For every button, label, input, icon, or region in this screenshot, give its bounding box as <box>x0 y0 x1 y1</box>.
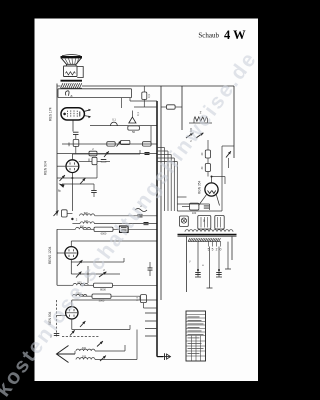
resistor 5005 row296 <box>92 294 111 298</box>
wire h 184 <box>62 183 94 185</box>
wire antenna up <box>74 351 76 354</box>
wire y204 right <box>177 203 209 205</box>
speaker frame box <box>64 66 78 77</box>
switch at 55 213 <box>54 210 59 216</box>
wire V3 bottom <box>70 259 72 262</box>
tube V3 electrodes <box>66 249 77 257</box>
primary box 1 <box>198 216 211 230</box>
transformer top coil row <box>185 230 233 232</box>
wire y206 h <box>182 206 190 208</box>
bus x234 upper <box>233 86 235 158</box>
coil row 296 <box>73 294 87 296</box>
wire 285 <box>81 284 94 286</box>
svg-text:RES 174: RES 174 <box>49 107 53 121</box>
wire left bus upper <box>56 84 58 167</box>
resistor on H3 b <box>121 140 130 144</box>
switch below V4 <box>80 321 85 327</box>
wire H1 top rail <box>82 85 234 87</box>
tube V1 output arrows <box>84 110 90 117</box>
switch on H3 <box>117 141 122 147</box>
wire x157 top corner <box>130 100 157 102</box>
svg-text:RENS 1204: RENS 1204 <box>48 246 52 264</box>
svg-text:0,1: 0,1 <box>136 112 140 116</box>
wire V1 right leg <box>121 98 123 108</box>
resistor 8000 row285 <box>94 283 113 287</box>
resistor H y107 <box>167 105 176 109</box>
wire V2 top <box>71 154 73 160</box>
primary box 2 <box>215 216 224 230</box>
svg-text:0,1: 0,1 <box>112 118 116 122</box>
vert x228 <box>227 242 229 269</box>
component (2) y210 <box>135 209 147 212</box>
wire V1 anode down <box>72 120 74 132</box>
svg-text:RGN 354: RGN 354 <box>198 180 202 194</box>
svg-text:4 W: 4 W <box>224 28 246 42</box>
wire x144 <box>143 86 145 92</box>
rectifier legs <box>199 194 207 205</box>
resistor 50 on H2 <box>128 126 140 130</box>
thick bus x157 <box>156 101 158 357</box>
cap to ground x94 <box>91 190 97 192</box>
wire x97 down <box>96 165 98 178</box>
bus x182 <box>181 86 183 130</box>
wire 222 vert <box>221 146 223 206</box>
svg-text:5005: 5005 <box>99 299 105 303</box>
resistor R under V1 <box>73 139 79 146</box>
mains lamp box <box>180 216 189 226</box>
wire cap to resistor <box>75 135 77 140</box>
junction dot v2 <box>71 177 73 179</box>
output transformer primary winding <box>61 83 82 88</box>
ground arrow bottom <box>157 356 163 358</box>
switch 97 344 <box>97 341 103 346</box>
wire V2 bottom <box>71 173 73 211</box>
resistor on H3 c <box>143 142 152 146</box>
svg-text:305: 305 <box>82 356 87 359</box>
coil row 359 <box>76 358 95 360</box>
coil row 229 <box>76 227 91 229</box>
cap below rectifier <box>204 206 210 208</box>
rectifier RGN354 envelope <box>205 183 218 196</box>
wire h262 <box>71 261 124 263</box>
svg-text:REN 904: REN 904 <box>44 161 48 175</box>
switch 71 333 <box>70 330 75 335</box>
coil row 350 <box>76 349 95 351</box>
wire transformer left tap <box>57 85 61 87</box>
switch below V2 b <box>80 178 85 184</box>
tube V4 electrodes <box>66 309 77 317</box>
electrolytic blob <box>59 184 65 188</box>
wire h336 <box>62 336 100 338</box>
svg-text:8µ: 8µ <box>58 189 62 193</box>
switch below V2 a <box>60 175 65 181</box>
svg-text:0,3: 0,3 <box>147 94 151 98</box>
resistor x146 y296 <box>141 295 147 303</box>
wire x208 <box>207 140 209 150</box>
wire V drop x151 <box>150 126 152 142</box>
svg-text:100: 100 <box>84 220 89 223</box>
svg-text:8000: 8000 <box>100 288 106 292</box>
wire down x191 <box>190 128 192 132</box>
wire y211 right <box>177 210 222 212</box>
wire H4 <box>57 153 157 155</box>
secondary winding hatch <box>188 238 221 241</box>
valve data table <box>186 311 206 361</box>
wire x143 region <box>143 303 145 308</box>
triangle lamp <box>129 117 136 123</box>
wire 229 right <box>113 228 120 230</box>
wire h274 <box>70 262 72 274</box>
svg-text:500: 500 <box>84 212 89 215</box>
wire left bus mid <box>56 166 58 216</box>
resistor 6000 row229 <box>94 227 113 231</box>
switch below V3 a <box>77 260 82 266</box>
dashed left bus <box>56 300 58 338</box>
power transformer core <box>178 234 237 236</box>
secondary taps <box>208 242 210 247</box>
pot arrow mid <box>99 272 106 277</box>
box below rectifier <box>190 203 199 210</box>
svg-text:0: 0 <box>220 248 222 252</box>
wire zigzag legs <box>193 119 195 123</box>
tube V4 REN904b envelope <box>66 307 78 319</box>
antenna symbol <box>57 346 69 363</box>
dark box row229 <box>120 226 129 232</box>
rectifier filaments <box>208 191 216 194</box>
wire h269 right <box>198 269 219 271</box>
watermark diagonal <box>0 47 262 400</box>
pot arrows y135 <box>186 133 193 138</box>
svg-text:50: 50 <box>132 130 136 134</box>
svg-text:100: 100 <box>192 211 197 215</box>
cap right of V2 <box>101 160 107 162</box>
switch below V3 b <box>76 272 81 278</box>
resistor 2 zigzag <box>194 117 208 121</box>
output transformer core <box>61 80 83 82</box>
h-bar ends <box>195 276 201 278</box>
svg-text:Schaub: Schaub <box>198 32 219 40</box>
svg-text:5: 5 <box>212 248 214 252</box>
speaker wire right <box>77 67 83 78</box>
secondary curl a <box>65 91 69 96</box>
svg-text:300: 300 <box>82 347 87 350</box>
vert x219 <box>218 247 220 278</box>
wire h213 <box>67 212 72 214</box>
nested wire corners <box>157 147 165 149</box>
loudspeaker LS <box>61 56 83 58</box>
wire 359 right <box>95 359 137 361</box>
vert x198 <box>197 242 199 277</box>
coil row 223 <box>80 222 94 224</box>
coil row 215 <box>80 214 95 216</box>
tube V3 RENS1204 envelope <box>65 247 78 260</box>
tube V2 electrodes <box>67 162 78 170</box>
cap pair right y273 <box>195 272 201 274</box>
wire 296 <box>80 295 92 297</box>
junction 2 dot <box>71 218 73 220</box>
wire y197 right <box>177 196 186 198</box>
transformer right leg <box>231 236 233 260</box>
wire V2 grid right <box>79 161 92 163</box>
resistor right of V2 <box>92 157 97 164</box>
cap x150 y270 <box>148 268 153 270</box>
wire V2 left <box>57 165 66 167</box>
svg-text:890: 890 <box>80 225 85 228</box>
cap pair y215 <box>138 215 143 217</box>
tube V2 REN904 envelope <box>66 160 79 173</box>
tube V1 electrodes <box>68 110 78 117</box>
wire 215 right <box>95 215 157 217</box>
switch right x228 <box>226 151 231 157</box>
svg-text:0,1: 0,1 <box>136 297 139 301</box>
output transformer secondary box <box>58 89 132 98</box>
wire x88 down <box>87 266 89 283</box>
svg-text:2: 2 <box>216 248 218 252</box>
wire V3 top <box>70 241 72 247</box>
coil row 285 <box>73 283 88 285</box>
resistor vert x208 b <box>205 164 210 172</box>
resistor vert x208 a <box>205 150 210 158</box>
transformer left leg <box>186 236 188 292</box>
resistor x144 vertical <box>142 92 147 99</box>
wire V3 left <box>57 252 65 254</box>
wire 223 right <box>94 223 157 225</box>
svg-text:u.: u. <box>202 263 205 267</box>
switch on H4 <box>104 151 109 157</box>
tube V1 RES 174 envelope <box>61 108 84 120</box>
cap on H4 <box>145 153 150 155</box>
dome capacitor on H2 <box>111 122 118 125</box>
white schematic page <box>35 19 259 382</box>
wire H3 <box>62 143 157 145</box>
switch 100 357 <box>100 356 106 361</box>
wire V4 left <box>57 315 66 317</box>
bus x161 <box>160 86 162 300</box>
wire V4 top <box>71 300 73 307</box>
box at 62 210 <box>62 210 68 217</box>
cap on dashed bus <box>54 333 60 335</box>
rectifier top wires <box>211 177 213 183</box>
resistor on H4 <box>89 151 97 156</box>
capacitor under V1 <box>73 132 79 134</box>
wire H2 <box>90 125 157 127</box>
bus stubs to table <box>145 312 157 314</box>
wire V4 bottom <box>71 319 73 330</box>
svg-text:a: a <box>71 94 73 98</box>
wire 350 right <box>95 350 125 352</box>
wire resistor down <box>75 146 77 153</box>
resistor on H3 a <box>107 142 115 146</box>
vert x209 <box>209 247 211 289</box>
